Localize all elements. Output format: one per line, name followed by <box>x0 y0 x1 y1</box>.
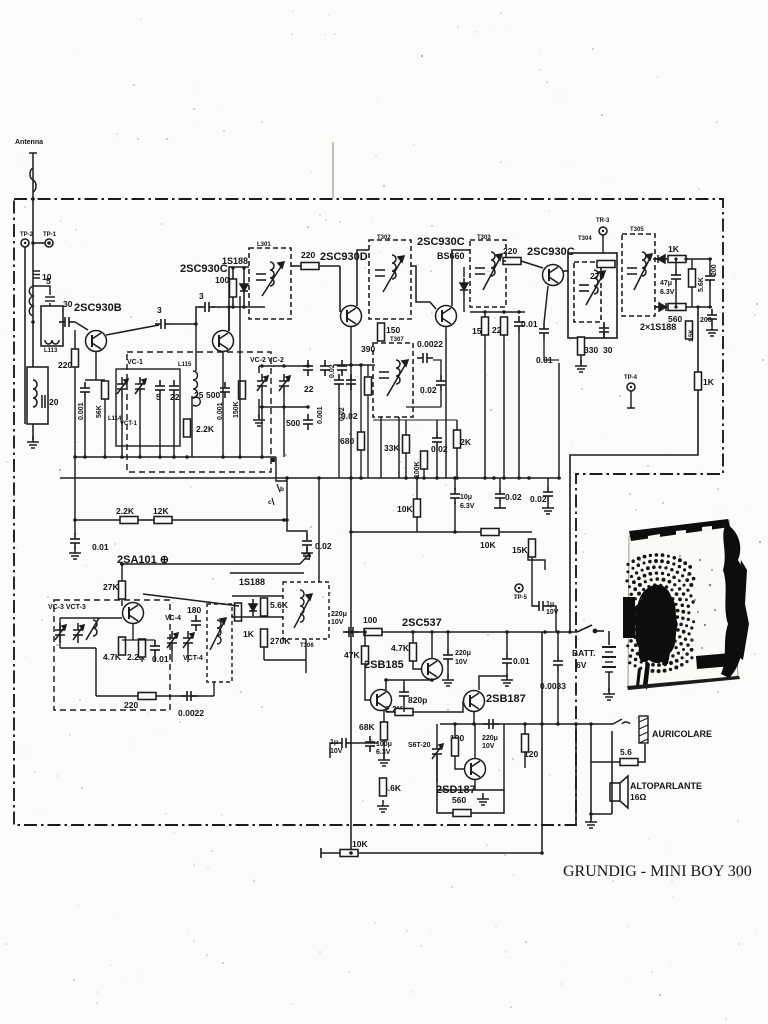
svg-text:GRUNDIG - MINI BOY 300: GRUNDIG - MINI BOY 300 <box>563 863 752 880</box>
svg-text:4.7K: 4.7K <box>391 643 410 653</box>
cap 0.02 agc2 <box>499 478 501 508</box>
svg-text:10μ: 10μ <box>460 494 472 501</box>
svg-text:270: 270 <box>590 271 604 281</box>
wire TP row <box>33 242 45 244</box>
resistor 150K <box>239 381 246 399</box>
osc transformer T-mid dashed box <box>373 343 413 417</box>
svg-text:2SC537: 2SC537 <box>402 617 442 629</box>
cap 0.0033 <box>553 655 563 671</box>
fold mark <box>332 142 334 198</box>
ground mid amp <box>477 793 489 805</box>
svg-text:22: 22 <box>304 384 314 394</box>
cap 10u 6.3V agc <box>454 478 456 532</box>
trimmer VC-4 <box>167 631 178 651</box>
svg-text:25: 25 <box>194 390 204 400</box>
svg-text:0.02: 0.02 <box>315 541 332 551</box>
cap 0.01 audio <box>502 653 512 669</box>
svg-text:TR-3: TR-3 <box>596 218 610 224</box>
resistor 1K right <box>695 372 702 390</box>
svg-text:3: 3 <box>199 291 204 301</box>
svg-text:3: 3 <box>157 305 162 315</box>
svg-text:150: 150 <box>386 325 400 335</box>
cap 180 <box>191 615 201 631</box>
speaker <box>610 776 628 808</box>
osc coil dashed box <box>207 604 232 682</box>
svg-text:2.2K: 2.2K <box>116 506 135 516</box>
svg-text:500: 500 <box>206 390 220 400</box>
tuning gang dashed box 2 <box>54 600 170 710</box>
wire 150b row <box>470 311 525 313</box>
diode 1S188b <box>249 599 257 616</box>
svg-text:33K: 33K <box>384 443 400 453</box>
svg-text:100: 100 <box>215 275 229 285</box>
svg-text:6.3V: 6.3V <box>460 503 475 510</box>
wire jack circuit <box>591 731 645 820</box>
wire det 1S188 rows <box>232 596 306 673</box>
svg-text:10V: 10V <box>455 659 468 666</box>
svg-text:2SC930C: 2SC930C <box>417 236 465 248</box>
vertical x576 <box>575 724 577 825</box>
transistor Q5 <box>543 265 564 286</box>
vertical x542 <box>541 632 543 853</box>
wire to Q3 base <box>339 266 341 312</box>
cap 0.02 a <box>334 374 344 390</box>
transistor Q7 2SC537 <box>422 659 443 680</box>
wire osc L-box stub <box>213 682 215 696</box>
wire audio Q8 network <box>330 680 463 758</box>
transistor Q2 converter <box>213 331 234 352</box>
svg-text:30: 30 <box>63 299 73 309</box>
TP-1 test point <box>43 232 57 247</box>
resistor 1.5K rot <box>686 321 693 339</box>
svg-text:0.02: 0.02 <box>329 364 336 378</box>
svg-text:AURICOLARE: AURICOLARE <box>652 729 712 739</box>
bottom rail 10K <box>321 848 542 858</box>
wire y365 <box>334 364 375 366</box>
resistor 56K <box>102 381 109 399</box>
coil osc arrow <box>86 618 99 640</box>
svg-text:2SC930C: 2SC930C <box>180 263 228 275</box>
wire Q4 collector to T303 <box>452 250 470 306</box>
svg-text:500: 500 <box>286 418 300 428</box>
coil L112 with core <box>29 271 40 316</box>
svg-text:0.01: 0.01 <box>513 656 530 666</box>
wire Q6 emitter <box>60 618 188 662</box>
transistor Q9 2SB187 <box>464 691 485 712</box>
svg-text:10K: 10K <box>352 839 368 849</box>
svg-text:220μ: 220μ <box>455 650 471 657</box>
svg-text:VC-1: VC-1 <box>127 359 143 366</box>
svg-text:Antenna: Antenna <box>15 139 43 146</box>
wire cap30b stub <box>603 324 605 338</box>
cap 0.01b <box>539 323 549 339</box>
svg-text:VC-4: VC-4 <box>165 615 181 622</box>
svg-text:220μ: 220μ <box>482 735 498 742</box>
trimmer VCT-1 <box>135 377 146 397</box>
svg-text:1.5K: 1.5K <box>689 329 695 342</box>
IF transformer T303 dashed box <box>470 240 506 307</box>
svg-text:27K: 27K <box>103 582 119 592</box>
trimmer VCT-3 <box>73 623 84 643</box>
wire 0.02 right stub <box>547 478 549 486</box>
svg-text:560: 560 <box>452 795 466 805</box>
wire det row bottoms <box>405 453 407 478</box>
cap 0.01 gnd left <box>70 533 80 549</box>
trimmer VC-2b <box>279 374 290 394</box>
cap 220u b <box>443 649 453 665</box>
wire T307 drops <box>380 417 382 478</box>
svg-text:TP-2: TP-2 <box>20 232 34 238</box>
wire 2SD187 stage sides <box>437 724 504 790</box>
Q2 emitter down <box>222 352 224 457</box>
svg-text:220μ: 220μ <box>331 611 347 618</box>
wire row2 <box>655 306 658 308</box>
volume pot dashed box <box>283 582 329 639</box>
svg-text:10V: 10V <box>546 609 559 616</box>
antenna <box>29 153 37 199</box>
wire row1 <box>655 258 658 260</box>
cap 1u 10V <box>533 601 549 611</box>
junction square <box>271 458 275 462</box>
resistor 100K <box>421 451 428 469</box>
trimmer VCT-4 <box>183 631 194 651</box>
svg-text:200: 200 <box>700 317 712 324</box>
svg-text:1K: 1K <box>703 377 715 387</box>
trimmer VC-3 <box>55 623 66 643</box>
transistor Q4 <box>436 306 457 327</box>
svg-text:16Ω: 16Ω <box>630 792 646 802</box>
cap 0.02 right <box>543 486 553 502</box>
svg-text:47μ: 47μ <box>660 280 672 287</box>
diode 1S188a <box>240 279 248 296</box>
svg-text:T303: T303 <box>477 235 491 241</box>
long vertical x350 <box>350 478 352 853</box>
svg-text:VC-2 VC-2: VC-2 VC-2 <box>250 357 284 364</box>
wire Q1 emitter down <box>95 352 97 380</box>
diag wire collector <box>143 594 239 606</box>
svg-text:T304: T304 <box>578 236 592 242</box>
wire Q4 emitter down <box>445 327 447 478</box>
svg-text:220: 220 <box>58 360 72 370</box>
svg-text:2SC930B: 2SC930B <box>74 302 122 314</box>
svg-text:0.02: 0.02 <box>339 407 346 421</box>
svg-text:c: c <box>268 499 272 506</box>
svg-text:22: 22 <box>170 392 180 402</box>
photo bottom edge <box>627 676 740 690</box>
wire Q2 collector up to L301 <box>229 267 249 331</box>
wire antenna column <box>32 199 34 367</box>
svg-text:T302: T302 <box>377 235 391 241</box>
svg-text:30: 30 <box>603 345 613 355</box>
transistor Q10 2SD187 <box>465 759 486 780</box>
svg-text:BATT.: BATT. <box>572 648 595 658</box>
IF transformer T302 dashed box <box>369 240 411 319</box>
resistor 5.6K rot <box>689 269 696 287</box>
diode row2 <box>654 303 671 311</box>
main audio rail <box>345 631 577 633</box>
radio photo <box>623 519 749 690</box>
svg-text:0.001: 0.001 <box>78 402 85 420</box>
wire osc bottom <box>95 648 97 696</box>
wire audio output stage <box>437 676 525 790</box>
svg-text:1S188: 1S188 <box>239 577 265 587</box>
svg-text:1μ: 1μ <box>546 601 554 608</box>
svg-text:2SC930D: 2SC930D <box>320 251 368 263</box>
wire 0.01b to x559 <box>544 339 559 360</box>
ground bus row1 <box>75 456 276 458</box>
photo right band <box>721 524 745 678</box>
cap 0.02 agc <box>302 535 312 551</box>
wire x559 vertical <box>558 363 560 478</box>
photo body outline <box>628 520 738 689</box>
svg-text:TP-1: TP-1 <box>43 232 57 238</box>
svg-text:2.2K: 2.2K <box>196 424 215 434</box>
svg-text:330: 330 <box>584 345 598 355</box>
svg-text:47K: 47K <box>344 650 360 660</box>
TP-2 test point <box>20 232 34 247</box>
svg-text:680: 680 <box>340 436 354 446</box>
photo top bar <box>629 519 730 541</box>
svg-text:L113: L113 <box>44 348 58 354</box>
cap 5 row <box>155 380 165 396</box>
svg-text:VCT-4: VCT-4 <box>183 655 203 662</box>
test point TP-5 <box>515 584 523 592</box>
svg-text:10V: 10V <box>330 748 343 755</box>
svg-text:12K: 12K <box>153 506 169 516</box>
wire agc row <box>75 519 120 521</box>
output rail <box>440 723 613 725</box>
wire audio Q7 network <box>365 632 558 724</box>
svg-text:15K: 15K <box>512 545 528 555</box>
chassis boundary outline <box>14 199 723 825</box>
svg-text:TP-4: TP-4 <box>624 375 638 381</box>
svg-text:b: b <box>280 486 284 493</box>
svg-text:S6T-20: S6T-20 <box>408 742 431 749</box>
svg-text:200: 200 <box>711 264 718 276</box>
tuning gang dashed box <box>127 352 271 472</box>
wire speaker drop <box>590 724 592 762</box>
transistor Q3 2SC930D <box>341 306 362 327</box>
svg-text:T305: T305 <box>630 227 644 233</box>
svg-text:T307: T307 <box>390 337 404 343</box>
svg-text:0.0033: 0.0033 <box>540 681 566 691</box>
cap 0.01a <box>514 316 524 332</box>
wire Q1 collector to Q2 <box>106 325 159 335</box>
wire 15K down <box>528 553 545 570</box>
wire Q3 emitter down <box>350 327 352 478</box>
svg-text:68K: 68K <box>359 722 375 732</box>
photo speckles <box>639 555 716 649</box>
svg-text:0.0022: 0.0022 <box>178 708 204 718</box>
earphone jack <box>613 716 648 743</box>
cap 0.001b <box>220 382 230 398</box>
photo left notch <box>623 597 635 638</box>
svg-text:2×1S188: 2×1S188 <box>640 322 676 332</box>
svg-text:L301: L301 <box>257 242 271 248</box>
wire Q3 collector to T302 <box>357 250 369 306</box>
cap 0.001 <box>80 382 90 398</box>
svg-text:6V: 6V <box>576 660 587 670</box>
svg-text:180: 180 <box>187 605 201 615</box>
IF transformer T304 box <box>568 253 617 338</box>
svg-text:2SB185: 2SB185 <box>364 659 404 671</box>
cap 220u out <box>483 719 499 729</box>
transistor Q6 2SA101 <box>123 603 144 624</box>
wire B+ from 1K down and left <box>570 307 698 632</box>
svg-text:10V: 10V <box>331 619 344 626</box>
svg-text:10K: 10K <box>397 504 413 514</box>
svg-text:270K: 270K <box>270 636 291 646</box>
svg-text:0.0022: 0.0022 <box>417 339 443 349</box>
svg-text:BS660: BS660 <box>437 251 465 261</box>
switch <box>577 625 604 633</box>
arrow marks b c <box>272 484 280 505</box>
svg-text:220: 220 <box>301 250 315 260</box>
cap 22 row <box>169 380 179 396</box>
diode row1 <box>653 255 670 263</box>
diode det <box>460 278 468 295</box>
svg-text:20: 20 <box>49 397 59 407</box>
svg-text:5: 5 <box>46 276 51 286</box>
photo bottom label <box>696 653 732 669</box>
wire Q5 to T304 <box>563 270 568 272</box>
svg-text:2SB187: 2SB187 <box>486 693 526 705</box>
photo grille dots <box>625 553 695 673</box>
svg-text:100K: 100K <box>414 461 421 478</box>
svg-text:220: 220 <box>124 700 138 710</box>
wire to Q1 base <box>75 322 88 330</box>
cap 100u 6.3V <box>365 736 375 752</box>
IF transformer T305 dashed box <box>622 234 655 316</box>
svg-text:1S188: 1S188 <box>222 256 248 266</box>
svg-text:5.6K: 5.6K <box>698 277 705 292</box>
wire VC-2 ties <box>259 366 308 418</box>
bus 2SA101 <box>120 563 300 565</box>
ground L108 <box>32 424 34 440</box>
svg-text:1K: 1K <box>668 244 680 254</box>
svg-text:L115: L115 <box>178 362 192 368</box>
svg-text:1K: 1K <box>243 629 255 639</box>
svg-text:T306: T306 <box>300 643 314 649</box>
svg-text:0.02: 0.02 <box>420 385 437 395</box>
cap 22b <box>303 360 313 376</box>
svg-text:56K: 56K <box>96 405 103 418</box>
wire 15K TP5 <box>532 557 556 632</box>
resistor 5.6K det <box>261 598 268 616</box>
svg-text:TP-5: TP-5 <box>514 595 528 601</box>
bus volume <box>230 572 304 574</box>
svg-text:5.6K: 5.6K <box>270 600 289 610</box>
photo centre blob <box>634 585 678 663</box>
cap 200 rot <box>705 270 715 286</box>
wire T302 to Q4 <box>411 266 436 309</box>
svg-text:820p: 820p <box>408 695 427 705</box>
svg-text:0.01: 0.01 <box>521 319 538 329</box>
bus AGC row <box>60 477 559 479</box>
svg-text:100: 100 <box>363 615 377 625</box>
svg-text:0.02: 0.02 <box>530 494 547 504</box>
wire diode det <box>463 267 465 277</box>
svg-text:5.6: 5.6 <box>620 747 632 757</box>
wire cap3 to junction <box>171 323 196 325</box>
svg-text:150K: 150K <box>233 401 240 418</box>
svg-text:ALTOPARLANTE: ALTOPARLANTE <box>630 781 702 791</box>
resistor 270K <box>261 629 268 647</box>
wire bus jog to 0.02 <box>276 457 307 551</box>
svg-text:0.001: 0.001 <box>317 406 324 424</box>
wire det row tops <box>373 419 457 421</box>
svg-text:0.02: 0.02 <box>505 492 522 502</box>
wire junction down to L115 <box>195 324 197 371</box>
svg-text:10V: 10V <box>482 743 495 750</box>
svg-text:10K: 10K <box>480 540 496 550</box>
coil L108 box <box>27 367 48 424</box>
svg-text:220: 220 <box>503 246 517 256</box>
wire top right hangs <box>676 259 710 307</box>
caps triple row <box>320 360 330 376</box>
wire pot feed <box>318 478 320 582</box>
svg-text:6.3V: 6.3V <box>660 289 675 296</box>
box VC-1 group <box>116 369 180 446</box>
wire left drop from TP-2 <box>24 247 26 424</box>
cap 0.02 b <box>346 374 356 390</box>
dots det row <box>483 310 520 313</box>
coil L113 box <box>41 306 63 346</box>
svg-text:0.01: 0.01 <box>92 542 109 552</box>
transistor Q8 2SB185 <box>371 690 392 711</box>
IF transformer L301 dashed box <box>249 248 291 319</box>
wire VC row <box>60 617 122 619</box>
